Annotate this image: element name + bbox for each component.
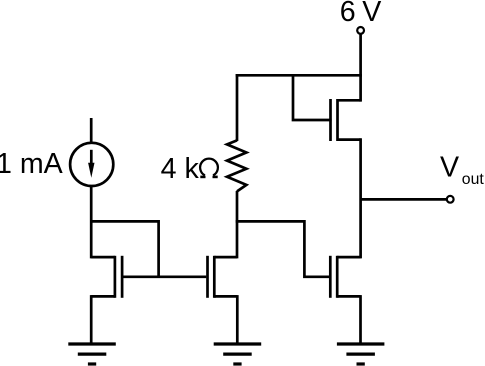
transistor M3 source lead (337, 295, 360, 298)
transistor M1 drain lead (91, 256, 115, 259)
wire resistor R top lead (236, 74, 239, 141)
terminal Vout (447, 196, 454, 203)
wire M1 diode connection (drain to gate) (90, 221, 159, 277)
wire current source top stub (90, 118, 93, 143)
wire output node vertical (M4 source to M3 drain) (359, 138, 362, 258)
transistor M2 channel bar (213, 256, 216, 298)
transistor M2 drain lead (214, 256, 237, 259)
svg-text:V: V (440, 152, 459, 184)
wire shared gate node M1 to M2 (122, 275, 206, 278)
wire M1 source to ground (90, 295, 93, 344)
label Vout (440, 152, 484, 189)
transistor M1 source lead (91, 295, 115, 298)
transistor M1 gate bar (121, 256, 124, 298)
transistor M4 source lead (338, 138, 361, 141)
ground under M2 (214, 344, 262, 364)
ground under M3 (337, 344, 385, 364)
svg-text:4 k: 4 k (161, 153, 200, 185)
current source I1 arrow (90, 150, 93, 170)
svg-text:out: out (462, 171, 485, 188)
wire resistor bottom lead down to M2 drain (236, 191, 239, 258)
wire current source to M1 drain (90, 187, 93, 259)
ground under M1 (68, 344, 116, 364)
transistor M3 channel bar (336, 256, 339, 298)
transistor M1 channel bar (114, 256, 117, 298)
transistor M2 source lead (214, 295, 237, 298)
wire M4 gate to top rail (293, 74, 332, 120)
current source I1 circle (70, 143, 113, 186)
wire node A branch to M3 gate (236, 221, 330, 276)
resistor 4 kOhm zigzag (227, 140, 246, 191)
label Ohm symbol (200, 159, 218, 177)
wire top rail (resistor top to VDD line) (236, 74, 362, 77)
transistor M4 gate bar (329, 99, 332, 141)
transistor M4 drain lead (338, 99, 361, 102)
wire M3 source to ground (359, 295, 362, 344)
svg-text:1 mA: 1 mA (0, 148, 64, 180)
transistor M3 drain lead (337, 256, 360, 259)
svg-text:6 V: 6 V (340, 0, 382, 28)
wire M2 source to ground (236, 295, 239, 344)
terminal VDD (357, 27, 364, 34)
transistor M4 channel bar (336, 99, 339, 141)
transistor M3 gate bar (329, 256, 332, 298)
wire VDD terminal down to top rail and M4 drain (359, 34, 362, 102)
transistor M2 gate bar (206, 256, 209, 298)
wire output node to Vout terminal (361, 198, 447, 201)
